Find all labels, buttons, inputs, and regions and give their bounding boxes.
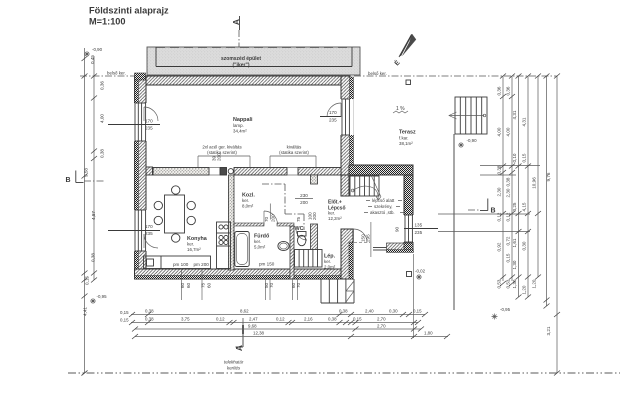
svg-text:12,38: 12,38 bbox=[253, 331, 265, 336]
svg-text:60: 60 bbox=[180, 282, 185, 288]
svg-text:70: 70 bbox=[264, 216, 269, 222]
svg-text:75: 75 bbox=[296, 216, 301, 222]
svg-text:9,58: 9,58 bbox=[84, 168, 89, 177]
svg-text:0,92: 0,92 bbox=[497, 242, 502, 251]
svg-text:1,20: 1,20 bbox=[532, 279, 537, 288]
svg-text:8,62: 8,62 bbox=[240, 309, 249, 314]
svg-text:70: 70 bbox=[269, 282, 274, 288]
svg-text:9,76: 9,76 bbox=[546, 172, 551, 181]
svg-text:0,45: 0,45 bbox=[90, 55, 95, 64]
svg-text:0,30: 0,30 bbox=[522, 241, 527, 250]
svg-text:200: 200 bbox=[217, 153, 222, 161]
svg-text:lépcső alatt: lépcső alatt bbox=[372, 198, 395, 203]
svg-text:235: 235 bbox=[145, 126, 153, 131]
svg-text:0,38: 0,38 bbox=[506, 177, 511, 186]
svg-text:ker.: ker. bbox=[254, 239, 261, 244]
svg-text:0,36: 0,36 bbox=[497, 86, 502, 95]
svg-text:kiváltás: kiváltás bbox=[287, 145, 302, 150]
svg-text:200: 200 bbox=[271, 214, 276, 222]
svg-text:B: B bbox=[491, 208, 496, 215]
svg-text:belső ker.: belső ker. bbox=[368, 71, 387, 76]
svg-text:1,20: 1,20 bbox=[522, 285, 527, 294]
svg-text:0,10: 0,10 bbox=[512, 153, 517, 162]
svg-text:2,70: 2,70 bbox=[377, 324, 386, 329]
svg-text:38,1m²: 38,1m² bbox=[399, 141, 413, 146]
svg-text:0,38: 0,38 bbox=[339, 309, 348, 314]
svg-text:-0,95: -0,95 bbox=[500, 307, 511, 312]
svg-text:9,68: 9,68 bbox=[248, 324, 257, 329]
svg-text:lamp.: lamp. bbox=[233, 123, 244, 128]
svg-text:0,36: 0,36 bbox=[506, 86, 511, 95]
svg-text:0,12: 0,12 bbox=[497, 212, 502, 221]
svg-text:("iker"): ("iker") bbox=[233, 63, 250, 69]
svg-text:4,87: 4,87 bbox=[91, 211, 96, 220]
svg-text:34,4m²: 34,4m² bbox=[233, 129, 247, 134]
svg-text:B: B bbox=[66, 177, 71, 184]
svg-text:-0,90: -0,90 bbox=[467, 138, 478, 143]
svg-text:230: 230 bbox=[300, 193, 308, 198]
svg-text:4,31: 4,31 bbox=[512, 110, 517, 119]
svg-text:2,16: 2,16 bbox=[304, 317, 313, 322]
svg-text:60: 60 bbox=[186, 282, 191, 288]
svg-text:A: A bbox=[234, 345, 244, 351]
svg-text:ker.: ker. bbox=[328, 211, 335, 216]
svg-text:(statika szerint): (statika szerint) bbox=[279, 150, 309, 155]
svg-text:akasztó ,stb.: akasztó ,stb. bbox=[370, 210, 395, 215]
svg-text:2,47: 2,47 bbox=[249, 317, 258, 322]
svg-text:70: 70 bbox=[296, 282, 301, 288]
svg-text:2,30: 2,30 bbox=[497, 187, 502, 196]
svg-text:telekhatár: telekhatár bbox=[224, 360, 244, 365]
svg-text:5,0m²: 5,0m² bbox=[254, 245, 266, 250]
svg-text:ker.: ker. bbox=[324, 259, 331, 264]
svg-text:0,53: 0,53 bbox=[497, 279, 502, 288]
svg-text:4,00: 4,00 bbox=[506, 127, 511, 136]
svg-text:0,72: 0,72 bbox=[506, 236, 511, 245]
svg-text:2,70: 2,70 bbox=[377, 317, 386, 322]
svg-text:0,15: 0,15 bbox=[413, 309, 422, 314]
svg-text:235: 235 bbox=[145, 231, 153, 236]
svg-text:0,38: 0,38 bbox=[100, 149, 105, 158]
svg-text:10,96: 10,96 bbox=[532, 177, 537, 189]
svg-text:szomszéd épület: szomszéd épület bbox=[221, 56, 261, 62]
svg-text:3,25: 3,25 bbox=[512, 202, 517, 211]
svg-text:-0,95: -0,95 bbox=[97, 294, 108, 299]
svg-text:kerítés: kerítés bbox=[227, 366, 241, 371]
svg-text:0,15: 0,15 bbox=[120, 310, 129, 315]
svg-text:0,36: 0,36 bbox=[100, 81, 105, 90]
svg-text:170: 170 bbox=[145, 224, 153, 229]
svg-text:0,15: 0,15 bbox=[506, 253, 511, 262]
svg-text:235: 235 bbox=[329, 118, 337, 123]
svg-text:170: 170 bbox=[145, 119, 153, 124]
svg-text:1 %: 1 % bbox=[396, 106, 405, 112]
svg-text:0,38: 0,38 bbox=[497, 165, 502, 174]
svg-text:4,00: 4,00 bbox=[497, 127, 502, 136]
svg-text:4,41: 4,41 bbox=[83, 307, 88, 316]
svg-text:belső ker.: belső ker. bbox=[107, 71, 126, 76]
svg-text:135: 135 bbox=[415, 223, 423, 228]
svg-text:200: 200 bbox=[300, 200, 308, 205]
svg-text:Földszinti alaprajz: Földszinti alaprajz bbox=[89, 6, 169, 16]
svg-text:60: 60 bbox=[207, 282, 212, 288]
svg-text:0,30: 0,30 bbox=[389, 309, 398, 314]
svg-text:pm 200: pm 200 bbox=[194, 262, 210, 267]
svg-text:2xl acél ger. kiváltás: 2xl acél ger. kiváltás bbox=[202, 145, 242, 150]
svg-text:0,38: 0,38 bbox=[328, 317, 337, 322]
svg-text:0,12: 0,12 bbox=[216, 317, 225, 322]
svg-text:2,40: 2,40 bbox=[365, 309, 374, 314]
svg-text:235: 235 bbox=[415, 230, 423, 235]
svg-text:pm 100: pm 100 bbox=[173, 262, 189, 267]
svg-text:0,15: 0,15 bbox=[522, 153, 527, 162]
svg-text:-0,90: -0,90 bbox=[92, 47, 103, 52]
svg-text:f.kar.: f.kar. bbox=[399, 136, 409, 141]
svg-text:4,15: 4,15 bbox=[522, 202, 527, 211]
svg-text:0,12: 0,12 bbox=[276, 317, 285, 322]
svg-text:3,75: 3,75 bbox=[181, 317, 190, 322]
svg-text:0,38: 0,38 bbox=[91, 253, 96, 262]
svg-text:4,00: 4,00 bbox=[100, 114, 105, 123]
svg-text:0,15: 0,15 bbox=[85, 276, 90, 285]
svg-text:ker.: ker. bbox=[187, 242, 194, 247]
svg-text:0,12: 0,12 bbox=[506, 212, 511, 221]
svg-text:295: 295 bbox=[366, 234, 371, 242]
svg-text:szekrény,: szekrény, bbox=[374, 204, 392, 209]
svg-text:90: 90 bbox=[395, 226, 400, 232]
svg-text:1,80: 1,80 bbox=[424, 331, 433, 336]
svg-text:-0,02: -0,02 bbox=[415, 269, 426, 274]
svg-text:pm 150: pm 150 bbox=[259, 262, 275, 267]
svg-text:2,30: 2,30 bbox=[506, 188, 511, 197]
svg-text:1,61: 1,61 bbox=[512, 238, 517, 247]
svg-text:M=1:100: M=1:100 bbox=[89, 17, 126, 27]
svg-text:16,7m²: 16,7m² bbox=[187, 247, 201, 252]
svg-text:ker.: ker. bbox=[242, 198, 249, 203]
svg-text:170: 170 bbox=[329, 110, 337, 115]
svg-text:4,31: 4,31 bbox=[522, 117, 527, 126]
svg-text:0,15: 0,15 bbox=[120, 318, 129, 323]
svg-text:3,21: 3,21 bbox=[546, 326, 551, 335]
svg-text:12,2m²: 12,2m² bbox=[328, 216, 342, 221]
svg-text:1,30: 1,30 bbox=[512, 279, 517, 288]
svg-text:200: 200 bbox=[312, 212, 317, 220]
svg-text:8,0m²: 8,0m² bbox=[242, 204, 254, 209]
svg-text:1,30: 1,30 bbox=[512, 260, 517, 269]
svg-text:75: 75 bbox=[201, 282, 206, 288]
svg-text:2,0m²: 2,0m² bbox=[324, 265, 336, 270]
svg-text:0,53: 0,53 bbox=[506, 279, 511, 288]
svg-text:(statika szerint): (statika szerint) bbox=[207, 150, 237, 155]
